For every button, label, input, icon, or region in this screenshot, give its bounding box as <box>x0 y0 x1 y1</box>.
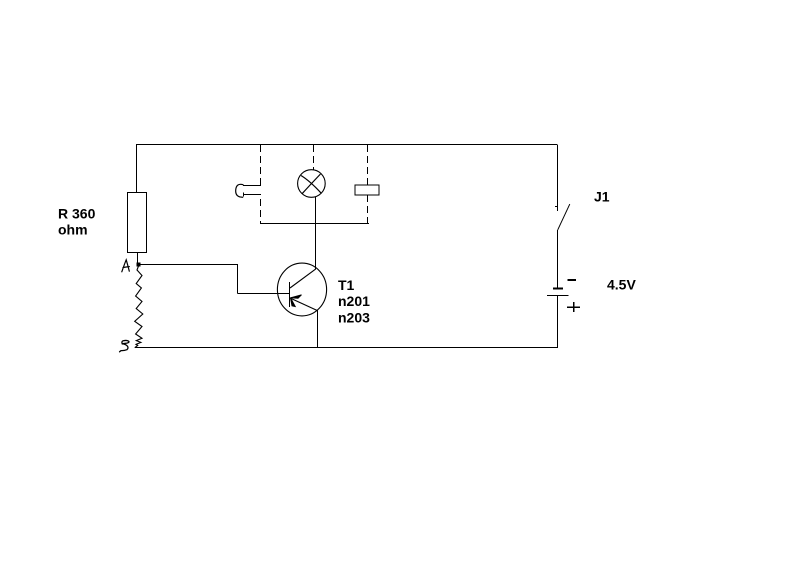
switch J1 blade <box>558 204 570 230</box>
label T1 n201 n203 <box>338 277 370 326</box>
svg-text:T1: T1 <box>338 277 355 293</box>
wire left vertical from top wire to resistor <box>136 145 138 194</box>
transistor base bar <box>289 282 291 307</box>
label B (freehand) <box>120 340 129 351</box>
transistor emitter diagonal <box>290 298 318 311</box>
wire emitter to bottom wire <box>317 311 319 348</box>
svg-text:4.5V: 4.5V <box>607 277 636 293</box>
wire lamp to transistor collector <box>315 197 317 270</box>
dashed vertical right lower segment <box>367 195 369 224</box>
transistor T1 body circle <box>277 263 326 316</box>
label R 360 ohm <box>58 206 96 238</box>
dashed vertical left lower segment <box>260 199 262 224</box>
svg-text:J1: J1 <box>594 189 610 205</box>
potentiometer wiper zigzag A to B (freehand) <box>135 266 143 348</box>
wire resistor bottom to node A <box>137 253 139 265</box>
dashed vertical right (to relay coil) <box>367 145 369 185</box>
node A junction dot <box>137 263 141 267</box>
wire bottom horizontal <box>135 347 557 349</box>
svg-text:R 360: R 360 <box>58 206 96 222</box>
dashed vertical left (to earpiece) <box>260 145 262 181</box>
svg-text:ohm: ohm <box>58 222 88 238</box>
battery plus sign <box>567 302 580 312</box>
wire top horizontal <box>136 144 557 146</box>
battery minus sign <box>568 279 577 281</box>
label A (freehand) <box>122 260 130 272</box>
relay coil box <box>355 185 379 195</box>
wire node A to base step <box>140 265 290 294</box>
dashed-box bottom bus (solid) <box>261 223 370 225</box>
wire switch to battery <box>557 230 559 288</box>
earpiece/plug symbol <box>236 184 244 197</box>
wire right vertical upper (top wire to switch) <box>557 145 559 212</box>
svg-text:n203: n203 <box>338 310 370 326</box>
dashed vertical middle (to lamp) <box>313 145 315 170</box>
wire battery to bottom wire <box>557 295 559 348</box>
svg-text:n201: n201 <box>338 293 370 309</box>
lamp L1 <box>298 170 326 198</box>
resistor R1 body <box>128 193 147 253</box>
switch J1 contact nub <box>555 206 558 208</box>
transistor collector diagonal <box>290 269 316 288</box>
battery BT1 negative plate (short thick) <box>553 287 563 289</box>
emitter arrowhead <box>291 295 302 298</box>
battery BT1 positive plate (long thin) <box>547 295 569 297</box>
